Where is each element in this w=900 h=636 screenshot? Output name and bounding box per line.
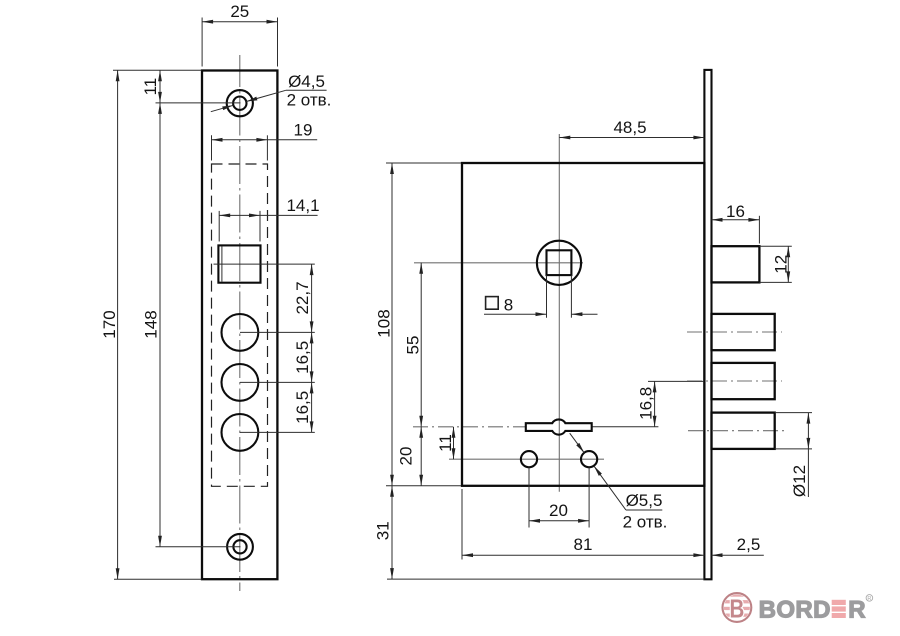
logo letter E as bars bbox=[832, 600, 846, 618]
latch bolt opening bbox=[218, 245, 260, 282]
svg-text:Ø5,5: Ø5,5 bbox=[626, 491, 663, 510]
deadbolt 3 bbox=[712, 413, 775, 449]
deadbolt 3 centerline bbox=[688, 430, 786, 432]
deadbolt hole 3 bbox=[222, 414, 259, 451]
dimension 81 bbox=[462, 554, 704, 556]
square symbol bbox=[486, 297, 499, 310]
extension body top left bbox=[386, 162, 461, 164]
deadbolt hole 2 bbox=[222, 364, 259, 401]
dimension 22,7 bbox=[311, 264, 313, 332]
screw hole extension lines down bbox=[528, 467, 530, 527]
svg-text:25: 25 bbox=[230, 2, 249, 21]
extension lines for 14,1 bbox=[218, 211, 220, 242]
extension for 16 bbox=[758, 216, 760, 244]
dimension 11 right bbox=[453, 427, 455, 459]
lock body hidden outline (dashed) bbox=[212, 164, 268, 486]
top screw hole bbox=[227, 90, 253, 116]
svg-text:108: 108 bbox=[375, 309, 394, 337]
svg-text:148: 148 bbox=[142, 310, 161, 338]
faceplate outline bbox=[202, 71, 277, 580]
svg-text:Ø12: Ø12 bbox=[790, 465, 809, 497]
svg-text:81: 81 bbox=[574, 535, 593, 554]
deadbolt 1 bbox=[712, 314, 775, 350]
latch bolt side view bbox=[712, 246, 760, 282]
svg-text:11: 11 bbox=[436, 434, 455, 452]
extensions for diameter 12 bbox=[775, 412, 812, 414]
faceplate centerline bbox=[239, 55, 241, 591]
dimension 25 bbox=[202, 21, 277, 23]
lock body outline bbox=[462, 163, 704, 486]
mounting lug bbox=[526, 419, 592, 434]
dimension 12 bbox=[787, 246, 789, 282]
dimension diameter 12 bbox=[807, 413, 809, 449]
square hole extension lines bbox=[546, 275, 548, 318]
svg-text:19: 19 bbox=[294, 120, 313, 139]
svg-text:20: 20 bbox=[549, 501, 568, 520]
screw hole right bbox=[581, 451, 597, 467]
dimension 11 bbox=[159, 70, 161, 103]
extension line bottom edge left bbox=[114, 578, 202, 580]
svg-text:B: B bbox=[730, 594, 745, 624]
latch axis (none) / deadbolt 1 centerline bbox=[687, 331, 782, 333]
deadbolt 2 bbox=[712, 363, 775, 399]
svg-text:R: R bbox=[867, 596, 871, 602]
latch bolt face line bbox=[221, 247, 223, 282]
svg-text:2,5: 2,5 bbox=[737, 535, 761, 554]
deadbolt hole 1 bbox=[222, 314, 259, 351]
extension 16,8 top bbox=[648, 380, 704, 382]
svg-text:14,1: 14,1 bbox=[286, 196, 319, 215]
dimension 14,1 bbox=[219, 214, 260, 216]
logo emblem stripes bbox=[722, 593, 752, 616]
svg-text:16,5: 16,5 bbox=[293, 341, 312, 374]
dimension 16 bbox=[712, 219, 760, 221]
extension faceplate bottom bbox=[387, 578, 704, 580]
lug centerline bbox=[413, 426, 525, 428]
extension 81 left bbox=[461, 489, 463, 560]
spindle square hole bbox=[547, 250, 572, 275]
svg-text:R: R bbox=[848, 597, 865, 624]
latch center extension bbox=[214, 263, 315, 265]
svg-text:11: 11 bbox=[141, 78, 160, 96]
dimension 20 bottom bbox=[529, 520, 589, 522]
spindle horizontal centerline bbox=[414, 262, 583, 264]
dimension 148 bbox=[159, 103, 161, 547]
dimension 19 bbox=[212, 139, 268, 141]
svg-text:12: 12 bbox=[772, 255, 791, 274]
deadbolt center extensions bbox=[240, 331, 315, 333]
leader for screw hole diameter bbox=[570, 433, 585, 453]
faceplate side view strip bbox=[704, 70, 711, 579]
dimension 16,5 upper bbox=[311, 332, 313, 382]
svg-text:8: 8 bbox=[504, 296, 513, 315]
screw holes horizontal centerline bbox=[449, 458, 604, 460]
extension line top edge left bbox=[113, 69, 202, 71]
svg-text:16,8: 16,8 bbox=[637, 387, 656, 420]
bottom hole center extension bbox=[156, 546, 241, 548]
svg-text:20: 20 bbox=[397, 447, 416, 466]
registered trademark bbox=[866, 595, 873, 602]
bottom screw hole bbox=[227, 534, 253, 560]
square 8 dimension arrows bbox=[484, 313, 547, 315]
dimension 2,5 bbox=[712, 554, 764, 556]
logo emblem ring bbox=[723, 593, 752, 622]
dimension 48,5 bbox=[559, 137, 704, 139]
svg-text:16,5: 16,5 bbox=[293, 391, 312, 424]
dimension 55 bbox=[420, 263, 422, 427]
spindle vertical centerline bbox=[558, 134, 560, 492]
svg-text:16: 16 bbox=[726, 202, 745, 221]
svg-text:31: 31 bbox=[374, 521, 393, 540]
svg-text:22,7: 22,7 bbox=[293, 281, 312, 314]
dimension 16,5 lower bbox=[311, 382, 313, 432]
deadbolt 2 centerline bbox=[687, 380, 782, 382]
leader for hole diameter bbox=[211, 105, 234, 111]
dimension 16,8 bbox=[654, 381, 656, 426]
extension lines for 25 bbox=[201, 18, 203, 67]
extension lines for 19 bbox=[211, 135, 213, 160]
dimension 20 left bbox=[420, 427, 422, 486]
svg-text:Ø4,5: Ø4,5 bbox=[288, 72, 325, 91]
extensions for 12 bbox=[759, 245, 791, 247]
extension body bottom left bbox=[386, 485, 461, 487]
top hole center extension bbox=[156, 102, 241, 104]
dimension 108 bbox=[391, 163, 393, 486]
svg-text:55: 55 bbox=[403, 336, 422, 355]
svg-text:2 отв.: 2 отв. bbox=[287, 91, 332, 110]
svg-text:48,5: 48,5 bbox=[613, 118, 646, 137]
dimension 170 bbox=[117, 70, 119, 579]
spindle hub circle bbox=[537, 241, 581, 285]
svg-text:170: 170 bbox=[100, 310, 119, 338]
screw hole left bbox=[521, 451, 537, 467]
dimension 31 bbox=[391, 486, 393, 579]
svg-text:BORD: BORD bbox=[759, 597, 831, 624]
svg-text:2 отв.: 2 отв. bbox=[623, 513, 668, 532]
